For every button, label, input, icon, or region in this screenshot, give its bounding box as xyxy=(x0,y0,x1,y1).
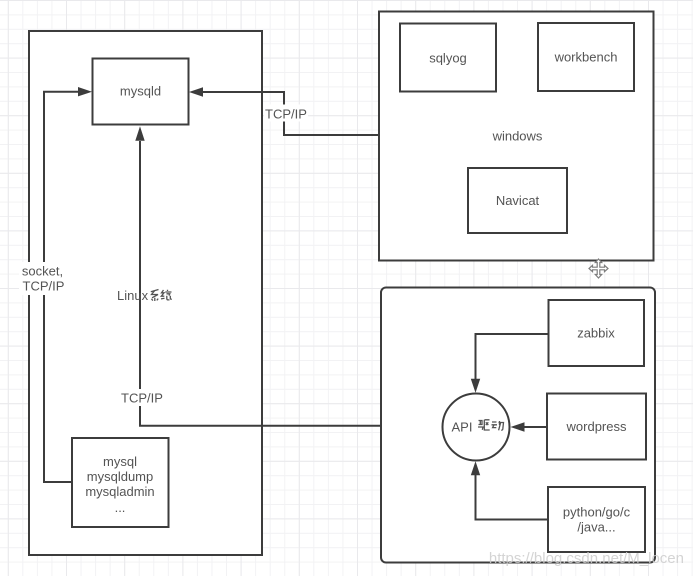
wire: linux-api edge (API box to mysqld, TCP/IP) xyxy=(140,141,381,426)
svg-text:python/go/c: python/go/c xyxy=(563,505,631,520)
svg-text:API: API xyxy=(452,420,473,435)
svg-text:socket,: socket, xyxy=(22,264,63,279)
wire: python edge to API circle xyxy=(476,475,549,520)
svg-text:https://blog.csdn.net/M_locen: https://blog.csdn.net/M_locen xyxy=(489,550,684,567)
svg-text:windows: windows xyxy=(492,129,543,144)
box python/go/c/java xyxy=(548,487,645,552)
node: arrowhead left into circle right xyxy=(511,422,525,431)
box wordpress xyxy=(547,394,646,460)
node: arrowhead left into mysqld right xyxy=(189,87,203,96)
node: arrowhead right into mysqld left xyxy=(78,87,92,96)
wire: socket edge (mysql tools to mysqld) xyxy=(44,92,79,482)
box Navicat xyxy=(468,168,567,233)
label socket, TCP/IP (white background) xyxy=(19,262,66,295)
svg-text:mysqld: mysqld xyxy=(120,84,161,99)
svg-text:TCP/IP: TCP/IP xyxy=(121,391,163,406)
wire: windows edge (windows box to mysqld, TCP/IP) xyxy=(203,92,380,135)
box zabbix xyxy=(549,300,645,366)
box sqlyog xyxy=(400,24,496,92)
svg-text:/java...: /java... xyxy=(577,520,615,535)
svg-text:mysqladmin: mysqladmin xyxy=(85,484,154,499)
container box Linux (left outer) xyxy=(29,31,262,555)
icon move cursor xyxy=(589,259,608,278)
wire: wordpress edge to API circle xyxy=(524,426,547,428)
container box API clients (bottom right) xyxy=(381,288,655,563)
box mysql tools xyxy=(72,438,169,527)
svg-text:workbench: workbench xyxy=(554,50,618,65)
box mysqld xyxy=(93,59,189,125)
wire: zabbix edge to API circle xyxy=(476,334,549,379)
node: arrowhead up into mysqld bottom xyxy=(135,126,144,141)
svg-text:Linux: Linux xyxy=(117,288,149,303)
box workbench xyxy=(538,23,634,91)
container box windows (top right) xyxy=(379,12,654,261)
svg-text:mysql: mysql xyxy=(103,454,137,469)
node: API驱动 circle xyxy=(443,394,510,461)
svg-text:TCP/IP: TCP/IP xyxy=(265,107,307,122)
label TCP/IP on linux-api edge (white background) xyxy=(119,389,164,406)
label Linux系统 xyxy=(117,288,172,303)
svg-text:wordpress: wordpress xyxy=(566,419,627,434)
svg-text:TCP/IP: TCP/IP xyxy=(23,279,65,294)
svg-text:mysqldump: mysqldump xyxy=(87,469,153,484)
node: arrowhead up into circle bottom xyxy=(471,461,480,475)
svg-text:zabbix: zabbix xyxy=(577,326,615,341)
svg-text:Navicat: Navicat xyxy=(496,193,540,208)
svg-text:...: ... xyxy=(115,500,126,515)
label TCP/IP on windows edge (white background) xyxy=(264,105,308,122)
svg-text:sqlyog: sqlyog xyxy=(429,51,467,66)
node: arrowhead down into circle top xyxy=(471,379,480,393)
